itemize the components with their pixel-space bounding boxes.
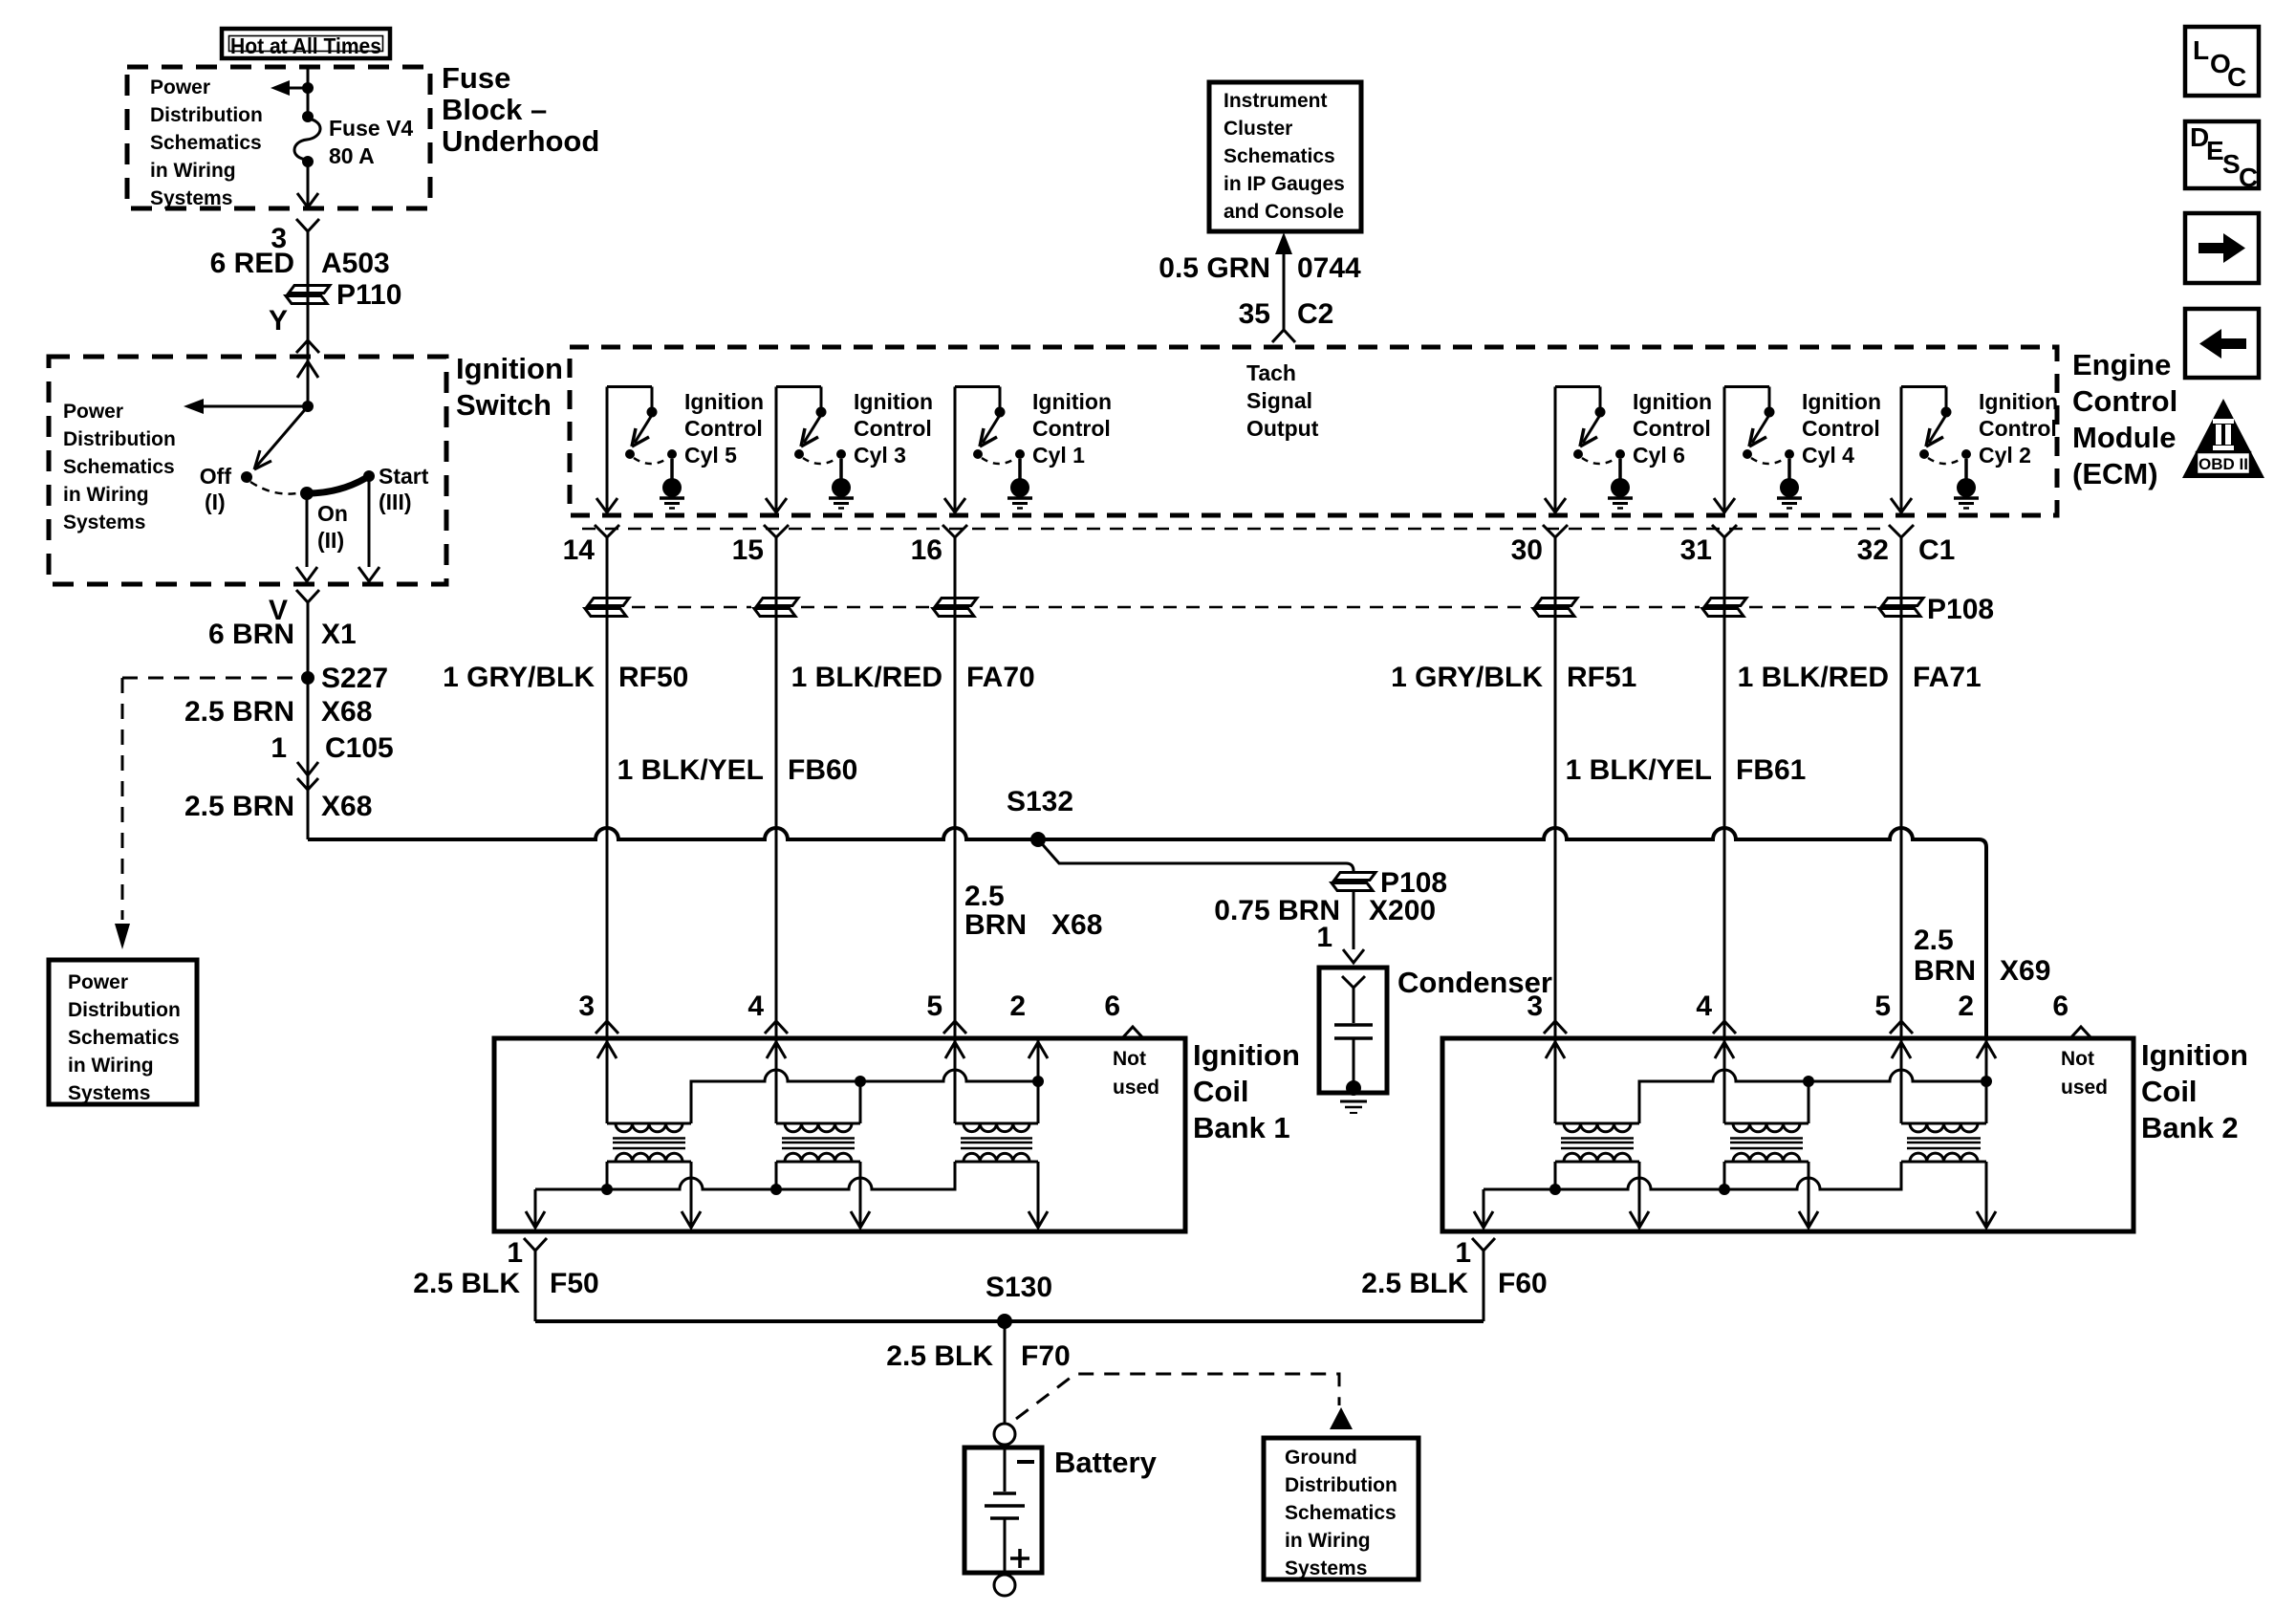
svg-text:X69: X69	[2000, 955, 2050, 987]
svg-text:14: 14	[563, 534, 596, 566]
svg-text:Battery: Battery	[1054, 1446, 1158, 1479]
svg-text:OBD II: OBD II	[2199, 455, 2248, 473]
svg-text:Ground: Ground	[1285, 1447, 1357, 1469]
svg-text:Distribution: Distribution	[1285, 1474, 1397, 1496]
svg-text:Systems: Systems	[63, 512, 145, 533]
svg-text:C105: C105	[325, 732, 394, 764]
svg-text:0.5 GRN: 0.5 GRN	[1159, 252, 1270, 284]
svg-text:FA70: FA70	[966, 662, 1035, 693]
svg-text:Power: Power	[63, 401, 123, 423]
svg-text:S132: S132	[1007, 786, 1073, 817]
svg-text:Tach: Tach	[1246, 360, 1296, 385]
svg-text:Module: Module	[2072, 421, 2177, 454]
svg-text:in Wiring: in Wiring	[1285, 1530, 1371, 1552]
svg-text:Cluster: Cluster	[1224, 118, 1292, 140]
svg-text:Fuse: Fuse	[442, 61, 510, 95]
svg-text:Schematics: Schematics	[63, 456, 175, 478]
svg-text:X68: X68	[321, 696, 372, 728]
svg-text:in IP Gauges: in IP Gauges	[1224, 173, 1345, 195]
svg-text:1: 1	[507, 1237, 523, 1269]
svg-text:E: E	[2206, 136, 2224, 165]
svg-text:Coil: Coil	[1193, 1075, 1249, 1108]
svg-text:Instrument: Instrument	[1224, 90, 1328, 112]
svg-text:16: 16	[911, 534, 942, 566]
svg-text:Ignition: Ignition	[684, 389, 764, 414]
svg-text:F70: F70	[1021, 1340, 1071, 1372]
svg-text:in Wiring: in Wiring	[63, 484, 149, 506]
svg-text:FB61: FB61	[1736, 754, 1806, 786]
svg-text:X68: X68	[321, 791, 372, 822]
svg-text:On: On	[317, 501, 348, 526]
svg-text:Schematics: Schematics	[1224, 145, 1335, 167]
svg-text:Hot at All Times: Hot at All Times	[230, 33, 381, 58]
svg-text:Ignition: Ignition	[456, 352, 563, 385]
svg-text:Power: Power	[150, 76, 210, 98]
svg-text:Control: Control	[1802, 416, 1880, 441]
svg-text:Switch: Switch	[456, 388, 552, 422]
svg-text:Y: Y	[269, 305, 288, 337]
svg-text:1 BLK/RED: 1 BLK/RED	[1738, 662, 1889, 693]
svg-text:1: 1	[271, 732, 287, 764]
svg-text:(ECM): (ECM)	[2072, 457, 2158, 490]
svg-text:Control: Control	[684, 416, 763, 441]
svg-text:0744: 0744	[1297, 252, 1361, 284]
svg-text:1 BLK/RED: 1 BLK/RED	[791, 662, 942, 693]
svg-text:Signal: Signal	[1246, 388, 1312, 413]
svg-text:2.5 BLK: 2.5 BLK	[886, 1340, 993, 1372]
svg-text:1: 1	[1455, 1237, 1471, 1269]
svg-text:35: 35	[1239, 298, 1270, 330]
svg-text:Control: Control	[2072, 384, 2177, 418]
svg-text:2.5: 2.5	[964, 881, 1005, 912]
svg-text:Control: Control	[1633, 416, 1711, 441]
svg-text:Ignition: Ignition	[1193, 1038, 1300, 1072]
svg-text:1: 1	[1316, 922, 1332, 953]
svg-text:Bank 2: Bank 2	[2141, 1111, 2239, 1144]
svg-text:FA71: FA71	[1913, 662, 1982, 693]
svg-text:C: C	[2227, 62, 2246, 92]
svg-text:5: 5	[1874, 991, 1891, 1022]
svg-text:Ignition: Ignition	[1979, 389, 2058, 414]
svg-text:Output: Output	[1246, 416, 1319, 441]
svg-text:1 BLK/YEL: 1 BLK/YEL	[1566, 754, 1712, 786]
svg-text:6 RED: 6 RED	[210, 248, 294, 279]
svg-text:Bank 1: Bank 1	[1193, 1111, 1290, 1144]
svg-text:Systems: Systems	[1285, 1557, 1367, 1579]
svg-text:5: 5	[926, 991, 942, 1022]
svg-text:S: S	[2222, 149, 2241, 179]
svg-text:6: 6	[1104, 991, 1120, 1022]
svg-text:Distribution: Distribution	[63, 428, 176, 450]
svg-text:used: used	[1113, 1077, 1159, 1099]
svg-text:Cyl 2: Cyl 2	[1979, 443, 2031, 468]
svg-text:1 BLK/YEL: 1 BLK/YEL	[617, 754, 764, 786]
svg-text:1 GRY/BLK: 1 GRY/BLK	[443, 662, 595, 693]
svg-text:Control: Control	[1032, 416, 1111, 441]
svg-text:Systems: Systems	[150, 187, 232, 209]
svg-text:32: 32	[1857, 534, 1889, 566]
svg-text:Block –: Block –	[442, 93, 547, 126]
svg-text:30: 30	[1511, 534, 1543, 566]
svg-text:Schematics: Schematics	[68, 1027, 180, 1049]
svg-text:FB60: FB60	[788, 754, 857, 786]
svg-text:Off: Off	[200, 464, 232, 489]
svg-text:Power: Power	[68, 971, 128, 993]
svg-text:Coil: Coil	[2141, 1075, 2198, 1108]
svg-text:4: 4	[747, 991, 764, 1022]
svg-text:Fuse V4: Fuse V4	[329, 116, 413, 141]
svg-text:F60: F60	[1498, 1268, 1548, 1299]
svg-text:in Wiring: in Wiring	[68, 1055, 154, 1077]
svg-text:Not: Not	[1113, 1048, 1146, 1070]
svg-text:BRN: BRN	[1914, 955, 1976, 987]
svg-text:X1: X1	[321, 619, 357, 650]
svg-text:S227: S227	[321, 663, 388, 694]
svg-text:Ignition: Ignition	[2141, 1038, 2248, 1072]
svg-text:Distribution: Distribution	[150, 104, 263, 126]
svg-text:used: used	[2061, 1077, 2108, 1099]
svg-text:2.5: 2.5	[1914, 925, 1954, 956]
svg-text:Engine: Engine	[2072, 348, 2171, 381]
svg-text:P108: P108	[1927, 594, 1994, 625]
svg-text:Systems: Systems	[68, 1082, 150, 1104]
svg-text:C: C	[2239, 163, 2258, 192]
svg-text:Not: Not	[2061, 1048, 2094, 1070]
svg-text:3: 3	[578, 991, 595, 1022]
svg-text:and Console: and Console	[1224, 201, 1344, 223]
svg-text:Start: Start	[379, 464, 429, 489]
svg-text:(III): (III)	[379, 490, 412, 514]
svg-text:Underhood: Underhood	[442, 124, 599, 158]
svg-text:P110: P110	[336, 279, 401, 311]
svg-text:Control: Control	[1979, 416, 2057, 441]
svg-text:4: 4	[1696, 991, 1712, 1022]
svg-text:Ignition: Ignition	[1032, 389, 1112, 414]
svg-text:6 BRN: 6 BRN	[208, 619, 294, 650]
svg-text:X200: X200	[1369, 895, 1436, 926]
svg-text:Cyl 4: Cyl 4	[1802, 443, 1854, 468]
svg-text:2: 2	[1009, 991, 1026, 1022]
svg-text:Schematics: Schematics	[1285, 1502, 1397, 1524]
svg-text:3: 3	[1527, 991, 1543, 1022]
svg-text:Distribution: Distribution	[68, 999, 181, 1021]
svg-text:1 GRY/BLK: 1 GRY/BLK	[1391, 662, 1543, 693]
svg-text:in Wiring: in Wiring	[150, 160, 236, 182]
svg-text:F50: F50	[550, 1268, 599, 1299]
svg-text:Cyl 5: Cyl 5	[684, 443, 737, 468]
svg-text:15: 15	[732, 534, 764, 566]
svg-text:L: L	[2193, 35, 2209, 65]
svg-text:Cyl 6: Cyl 6	[1633, 443, 1685, 468]
svg-text:C2: C2	[1297, 298, 1333, 330]
svg-text:80 A: 80 A	[329, 143, 375, 168]
svg-text:31: 31	[1680, 534, 1712, 566]
svg-text:2: 2	[1958, 991, 1974, 1022]
svg-text:Ignition: Ignition	[1633, 389, 1712, 414]
svg-text:(II): (II)	[317, 528, 344, 553]
svg-text:X68: X68	[1051, 909, 1102, 941]
svg-text:S130: S130	[986, 1272, 1052, 1303]
svg-text:2.5 BRN: 2.5 BRN	[184, 791, 294, 822]
svg-text:Cyl 3: Cyl 3	[854, 443, 906, 468]
svg-text:RF51: RF51	[1567, 662, 1636, 693]
svg-text:Control: Control	[854, 416, 932, 441]
svg-text:2.5 BRN: 2.5 BRN	[184, 696, 294, 728]
svg-text:C1: C1	[1918, 534, 1955, 566]
svg-text:6: 6	[2052, 991, 2069, 1022]
svg-text:Ignition: Ignition	[1802, 389, 1881, 414]
svg-text:RF50: RF50	[618, 662, 688, 693]
svg-text:A503: A503	[321, 248, 390, 279]
svg-text:Cyl 1: Cyl 1	[1032, 443, 1085, 468]
svg-text:2.5 BLK: 2.5 BLK	[1361, 1268, 1468, 1299]
svg-text:Schematics: Schematics	[150, 132, 262, 154]
svg-text:2.5 BLK: 2.5 BLK	[413, 1268, 520, 1299]
svg-text:(I): (I)	[205, 490, 226, 514]
svg-text:Ignition: Ignition	[854, 389, 933, 414]
svg-text:BRN: BRN	[964, 909, 1027, 941]
